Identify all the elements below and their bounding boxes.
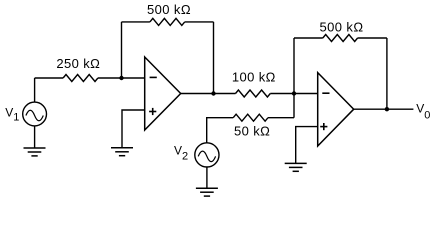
resistor 500 kOhm (U1 feedback): [150, 18, 185, 25]
svg-text:500 kΩ: 500 kΩ: [320, 20, 364, 35]
wire U2 output to Vo: [354, 108, 414, 110]
U1 minus sign: [150, 76, 157, 78]
node A (junction at U1 inverting input): [119, 76, 123, 80]
svg-text:250 kΩ: 250 kΩ: [56, 56, 100, 71]
resistor 100 kOhm: [236, 90, 271, 97]
wire feedback right leg U2: [386, 38, 388, 109]
ground under V2: [196, 188, 218, 196]
wire resistor to node A: [98, 77, 145, 79]
voltage source V1: [23, 102, 47, 126]
ground at U2 noninverting input: [285, 163, 307, 171]
wire 50k left segment down to V2: [207, 118, 234, 143]
wire V2 bottom lead: [206, 167, 208, 188]
svg-text:V1: V1: [5, 105, 19, 123]
U2 plus sign: [320, 123, 327, 130]
wire feedback left leg U2: [293, 38, 295, 94]
wire 100k to node C: [270, 93, 317, 95]
svg-text:V2: V2: [174, 144, 188, 163]
wire U2 noninverting input: [296, 127, 318, 164]
wire V1 top lead: [34, 78, 36, 102]
op-amp U1: [145, 57, 181, 130]
svg-text:500 kΩ: 500 kΩ: [147, 2, 191, 17]
wire U1 output: [181, 93, 236, 95]
ground at U1 noninverting input: [111, 148, 133, 156]
wire feedback left leg U1: [121, 22, 123, 78]
wire feedback top left segment U1: [122, 21, 150, 23]
resistor 50 kOhm: [233, 114, 268, 121]
wire U1 noninverting input: [122, 110, 145, 148]
wire V1 bottom lead: [34, 126, 36, 148]
voltage source V2: [195, 143, 219, 167]
svg-text:V0: V0: [416, 102, 430, 122]
U2 minus sign: [322, 92, 329, 94]
U1 plus sign: [149, 108, 156, 115]
wire feedback top left segment U2: [294, 37, 323, 39]
node D (output node): [385, 107, 389, 111]
resistor 500 kOhm (U2 feedback): [323, 35, 358, 42]
wire feedback top right segment U2: [358, 37, 387, 39]
node C (U2 inverting input junction): [292, 91, 296, 95]
svg-text:100 kΩ: 100 kΩ: [232, 70, 276, 85]
op-amp U2: [318, 73, 354, 146]
svg-text:50 kΩ: 50 kΩ: [234, 124, 270, 139]
wire input line to inverting input of U1: [35, 77, 64, 79]
ground under V1: [24, 148, 46, 156]
node B (U1 output / feedback junction): [211, 91, 215, 95]
wire feedback top right segment U1: [185, 21, 214, 23]
wire node C down to 50k line: [293, 94, 295, 118]
wire 50k right segment: [268, 117, 294, 119]
wire feedback right leg U1: [213, 22, 215, 94]
resistor 250 kOhm: [63, 75, 98, 82]
